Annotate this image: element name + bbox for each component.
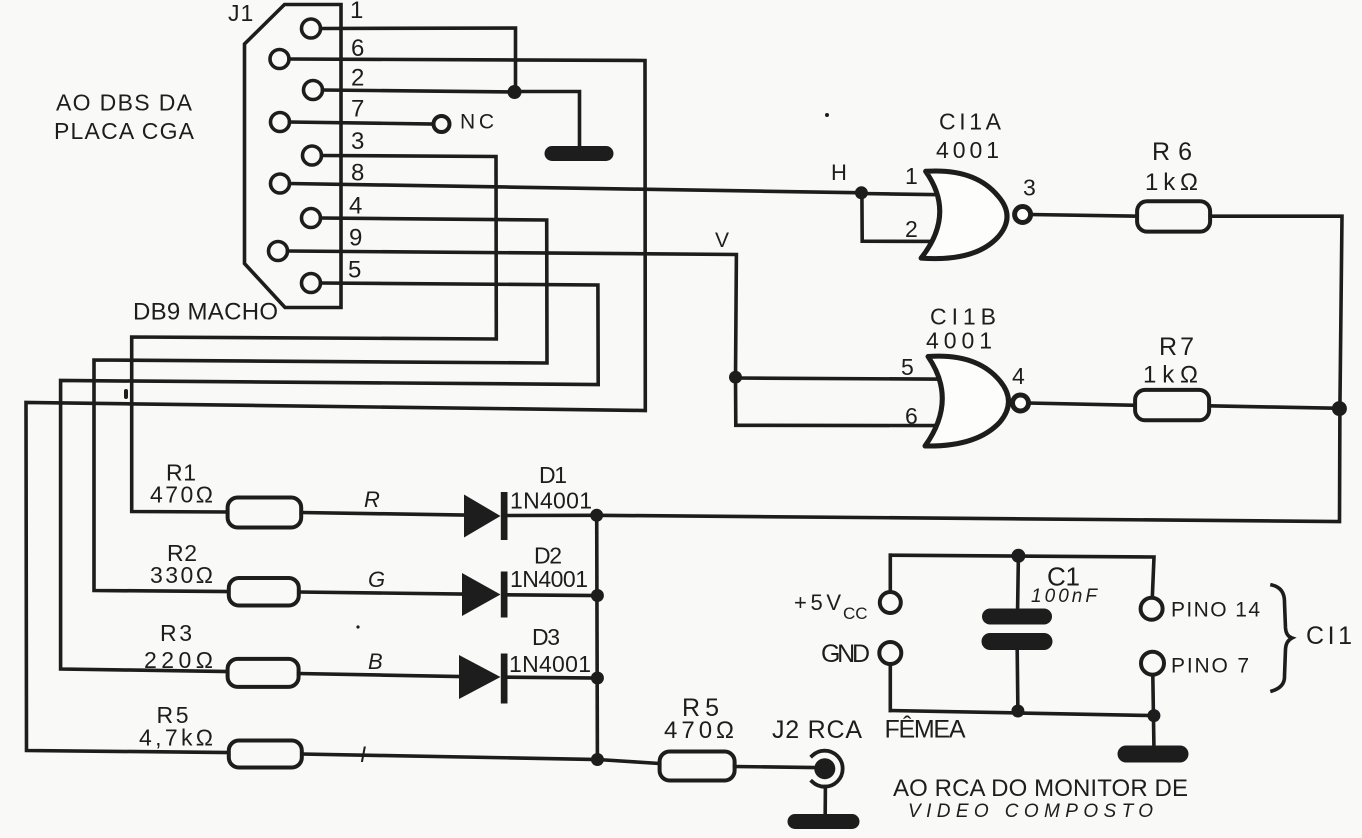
svg-text:9: 9	[349, 225, 362, 252]
wire R5b to J2	[735, 767, 814, 768]
wire R2 to D2	[299, 592, 462, 594]
svg-text:I: I	[360, 742, 366, 767]
wire D2 to node column	[508, 593, 598, 597]
svg-text:1kΩ: 1kΩ	[1145, 169, 1198, 196]
terminal +5Vcc	[880, 592, 901, 613]
pin 4 circle	[302, 209, 321, 228]
pin 3 circle	[303, 146, 322, 165]
svg-text:3: 3	[351, 128, 364, 155]
wire gate A output to R6	[1031, 215, 1138, 217]
svg-text:+5V: +5V	[794, 590, 841, 615]
wire R1 to D1	[301, 513, 464, 516]
svg-text:AO DBS DA: AO DBS DA	[56, 90, 193, 116]
terminal GND	[879, 642, 901, 664]
wire H to gate A input 1	[861, 194, 947, 195]
wire pin6 long bus to I row	[26, 59, 645, 753]
wire D3 to node column	[508, 675, 598, 679]
svg-text:FÊMEA: FÊMEA	[885, 715, 966, 744]
svg-text:PINO 14: PINO 14	[1171, 599, 1260, 622]
node junction pin1-pin2	[508, 85, 522, 99]
svg-text:J2 RCA: J2 RCA	[772, 716, 862, 744]
svg-text:5: 5	[901, 354, 914, 380]
svg-text:DB9 MACHO: DB9 MACHO	[133, 299, 278, 326]
svg-text:J1: J1	[228, 0, 254, 26]
wire power block top rail	[890, 555, 1154, 598]
op-amp U1 gate CI1B 4001 NOR	[925, 356, 1029, 446]
connector J2 RCA jack	[812, 751, 843, 787]
svg-text:1: 1	[350, 0, 363, 24]
node C1 top	[1011, 549, 1025, 563]
svg-text:G: G	[368, 567, 385, 592]
svg-text:1kΩ: 1kΩ	[1143, 362, 1198, 389]
resistor R3	[228, 659, 299, 687]
wire R5a to I node	[302, 754, 598, 760]
wire pin5 bus to R3	[61, 283, 599, 672]
svg-text:R7: R7	[1159, 333, 1194, 361]
svg-text:CI1: CI1	[1306, 622, 1352, 650]
svg-text:4: 4	[1012, 363, 1025, 389]
terminal PINO 7	[1141, 652, 1164, 675]
wire R3 to D3	[299, 674, 459, 677]
svg-text:B: B	[368, 649, 383, 674]
pin 1 circle	[302, 19, 321, 38]
pin 5 circle	[302, 274, 321, 293]
diode D2	[462, 572, 508, 618]
wire D1 to node column	[508, 513, 597, 517]
pin 8 circle	[271, 174, 290, 193]
node right rail junction	[1332, 401, 1347, 416]
svg-text:D1: D1	[539, 462, 567, 488]
ground bar J2	[795, 814, 852, 829]
wire H to gate A input 2	[862, 193, 943, 242]
terminal PINO 14	[1141, 598, 1163, 620]
svg-text:CI1A: CI1A	[939, 109, 1002, 135]
resistor R6	[1137, 201, 1210, 231]
svg-text:8: 8	[351, 160, 364, 187]
svg-text:R3: R3	[160, 620, 192, 646]
svg-text:3: 3	[1023, 175, 1036, 201]
wire diode node column vertical	[595, 515, 599, 759]
pin 6 circle	[270, 50, 289, 69]
svg-text:2: 2	[351, 65, 364, 92]
wire junction to ground	[515, 92, 580, 148]
svg-text:330Ω: 330Ω	[150, 562, 213, 588]
svg-text:AO RCA DO MONITOR DE: AO RCA DO MONITOR DE	[893, 775, 1188, 802]
svg-text:D2: D2	[534, 543, 562, 569]
pin 2 circle	[304, 81, 323, 100]
svg-text:H: H	[831, 160, 847, 185]
NC terminal circle	[434, 116, 450, 132]
svg-text:100nF: 100nF	[1031, 586, 1098, 607]
pin 9 circle	[269, 242, 288, 261]
resistor R5 470	[660, 752, 735, 781]
pin 7 circle	[271, 113, 290, 132]
resistor R1	[228, 498, 302, 528]
diode D3	[459, 654, 508, 704]
resistor R7	[1135, 390, 1209, 420]
wire J2 to ground	[823, 787, 827, 815]
node bottom rail right junction	[1147, 709, 1160, 722]
svg-text:4: 4	[349, 193, 362, 220]
svg-text:V: V	[715, 229, 729, 252]
wire I node to R5b	[597, 760, 659, 764]
svg-text:1N4001: 1N4001	[510, 488, 592, 514]
svg-text:1N4001: 1N4001	[510, 566, 588, 592]
svg-text:2: 2	[905, 216, 918, 242]
wire GND stem	[888, 664, 892, 711]
svg-text:1: 1	[905, 163, 918, 189]
wire PINO7 to ground	[1153, 675, 1154, 745]
wire +5V stem	[888, 555, 892, 592]
wire right rail down to D row	[597, 409, 1340, 522]
diode D1	[464, 492, 508, 540]
wire pin3 bus to R1	[132, 156, 497, 513]
svg-text:GND: GND	[821, 640, 870, 668]
svg-text:6: 6	[905, 403, 918, 429]
svg-text:CC: CC	[843, 604, 868, 623]
svg-text:470Ω: 470Ω	[150, 482, 213, 508]
wire gate B output to R7	[1029, 403, 1136, 405]
wire pin7 to NC	[290, 122, 434, 124]
svg-text:4,7kΩ: 4,7kΩ	[139, 725, 213, 751]
wire pin2 to junction	[323, 90, 515, 92]
op-amp U1 gate CI1A 4001 NOR	[921, 171, 1031, 259]
wire power block bottom rail	[890, 711, 1154, 716]
node C1 bottom	[1011, 705, 1024, 718]
node D3 junction	[591, 672, 604, 685]
wire pin9 to V node and gate input 6	[288, 251, 952, 426]
wire pin1 to junction	[321, 28, 516, 88]
ground bar top	[552, 146, 606, 161]
capacitor C1	[990, 556, 1044, 711]
svg-text:7: 7	[351, 96, 364, 123]
wire R6 to right rail	[1210, 216, 1342, 408]
node D2 junction	[591, 589, 604, 602]
svg-text:1N4001: 1N4001	[509, 651, 591, 677]
svg-text:220Ω: 220Ω	[144, 647, 213, 673]
wire pin8 to H node	[290, 184, 862, 193]
node D1 junction	[590, 509, 603, 522]
svg-text:CI1B: CI1B	[930, 304, 996, 330]
svg-text:D3: D3	[532, 624, 560, 650]
svg-text:R: R	[364, 487, 380, 512]
svg-text:470Ω: 470Ω	[664, 717, 734, 744]
wire V to gate B input 5	[736, 378, 948, 379]
node H	[855, 186, 868, 199]
ground bar CI1	[1126, 746, 1180, 763]
wire pin4 bus to R2	[94, 218, 547, 592]
node V	[729, 371, 742, 384]
brace CI1	[1272, 585, 1292, 691]
wire R7 to right rail junction	[1209, 406, 1339, 409]
svg-text:PLACA CGA: PLACA CGA	[54, 118, 195, 144]
resistor R2	[229, 578, 299, 606]
resistor R5 4,7k	[229, 741, 302, 768]
svg-text:5: 5	[348, 257, 361, 284]
ink speck	[124, 389, 128, 399]
connector J1 outline	[245, 5, 342, 308]
node I junction	[591, 753, 604, 766]
